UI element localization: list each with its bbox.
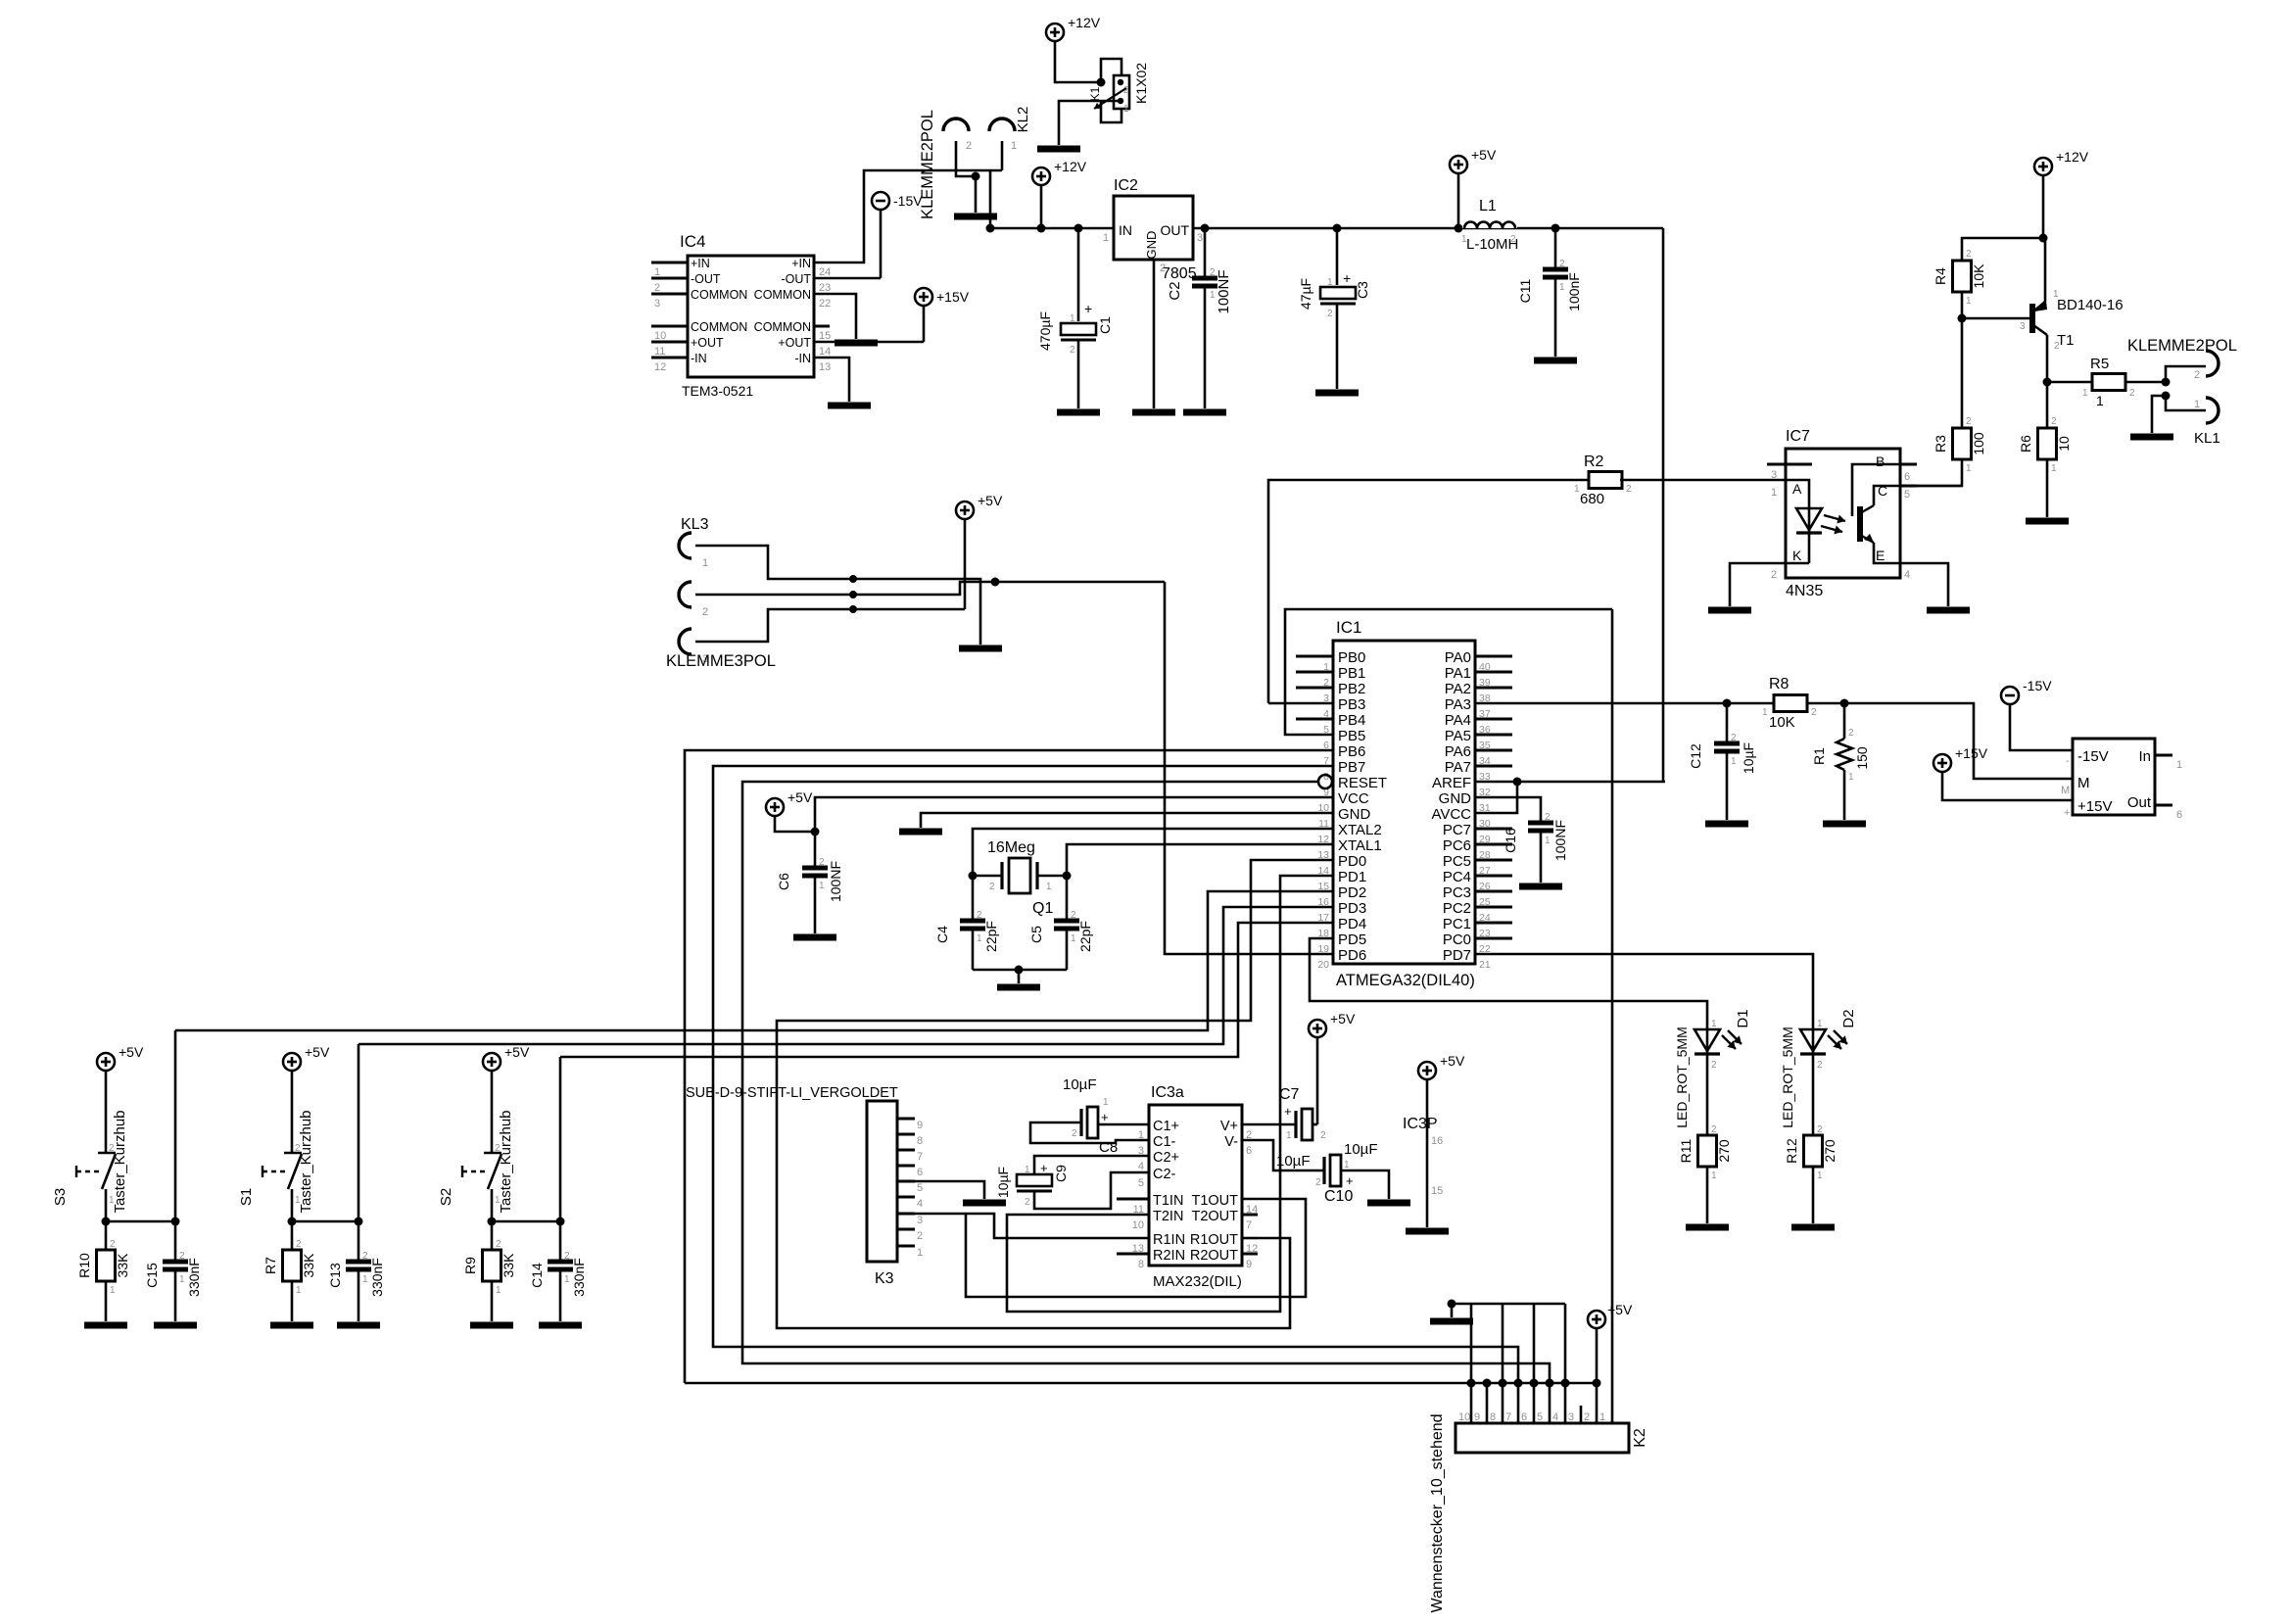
svg-text:+: + (2064, 807, 2070, 819)
svg-text:1: 1 (1545, 836, 1551, 846)
svg-text:3: 3 (1568, 1411, 1574, 1423)
svg-text:2: 2 (2054, 341, 2060, 352)
svg-text:1: 1 (2176, 759, 2182, 771)
svg-text:IC3a: IC3a (1151, 1084, 1184, 1101)
svg-text:47µF: 47µF (1298, 278, 1313, 310)
svg-text:2: 2 (1811, 707, 1817, 718)
svg-text:5: 5 (917, 1182, 923, 1194)
svg-text:R7: R7 (263, 1257, 278, 1274)
svg-text:1: 1 (2096, 393, 2104, 408)
svg-text:PC2: PC2 (1443, 900, 1471, 917)
svg-text:150: 150 (1854, 746, 1870, 770)
svg-text:-15V: -15V (2023, 678, 2052, 693)
svg-text:6: 6 (2176, 809, 2182, 821)
svg-text:C2: C2 (1167, 281, 1183, 300)
svg-text:12: 12 (654, 361, 666, 373)
svg-text:1: 1 (1046, 882, 1052, 892)
svg-text:KL3: KL3 (681, 516, 709, 533)
svg-text:R2IN: R2IN (1153, 1248, 1185, 1264)
svg-text:C11: C11 (1517, 278, 1533, 303)
svg-text:E: E (1876, 548, 1885, 563)
svg-text:13: 13 (819, 361, 831, 373)
svg-text:R12: R12 (1784, 1138, 1799, 1164)
svg-text:1: 1 (654, 266, 660, 278)
svg-text:6: 6 (1246, 1145, 1252, 1157)
svg-text:PA7: PA7 (1445, 759, 1471, 776)
svg-text:C6: C6 (776, 873, 791, 890)
svg-text:2: 2 (495, 1143, 501, 1154)
svg-text:K1: K1 (1088, 86, 1102, 101)
svg-text:1: 1 (1966, 296, 1972, 307)
svg-text:1: 1 (1103, 1097, 1109, 1108)
svg-text:16Meg: 16Meg (987, 839, 1035, 856)
svg-text:+5V: +5V (1607, 1302, 1633, 1317)
svg-text:K2: K2 (1632, 1428, 1648, 1448)
svg-text:RESET: RESET (1338, 775, 1387, 791)
svg-text:T1: T1 (2057, 332, 2075, 349)
svg-text:S3: S3 (52, 1188, 69, 1206)
svg-text:100nF: 100nF (1566, 272, 1582, 311)
svg-text:1: 1 (1103, 232, 1109, 244)
svg-text:C1+: C1+ (1153, 1119, 1179, 1134)
svg-text:1: 1 (1070, 313, 1075, 324)
svg-text:10: 10 (2056, 436, 2072, 452)
svg-text:2: 2 (1817, 1124, 1823, 1135)
svg-text:1: 1 (1011, 140, 1017, 152)
svg-text:2: 2 (1559, 259, 1565, 269)
svg-text:2: 2 (966, 140, 972, 152)
svg-text:PA0: PA0 (1445, 649, 1471, 666)
svg-text:2: 2 (1584, 1411, 1590, 1423)
svg-text:1: 1 (1025, 1165, 1030, 1175)
svg-text:3: 3 (1197, 232, 1203, 244)
svg-text:+12V: +12V (1054, 159, 1087, 174)
svg-text:1: 1 (2194, 399, 2200, 410)
svg-text:R1: R1 (1811, 747, 1827, 765)
svg-text:IC3P: IC3P (1403, 1116, 1438, 1132)
svg-text:1: 1 (296, 1285, 302, 1296)
svg-text:LED_ROT_5MM: LED_ROT_5MM (1780, 1027, 1795, 1127)
svg-text:R9: R9 (462, 1257, 478, 1274)
svg-text:6: 6 (917, 1167, 923, 1178)
svg-text:C5: C5 (1028, 926, 1044, 943)
svg-text:16: 16 (1431, 1135, 1443, 1147)
svg-text:2: 2 (1327, 309, 1333, 319)
svg-text:6: 6 (1521, 1411, 1527, 1423)
svg-text:1: 1 (1559, 282, 1565, 293)
svg-text:PD1: PD1 (1338, 869, 1366, 885)
svg-text:100NF: 100NF (1552, 820, 1568, 861)
svg-text:4: 4 (1904, 569, 1910, 581)
svg-text:1: 1 (564, 1274, 570, 1285)
svg-text:1: 1 (1711, 1170, 1717, 1181)
svg-text:+5V: +5V (119, 1044, 144, 1060)
svg-text:1: 1 (362, 1274, 368, 1285)
svg-text:+: + (1346, 1173, 1354, 1188)
svg-text:+: + (1101, 1110, 1109, 1124)
svg-text:PD4: PD4 (1338, 916, 1366, 932)
svg-text:4: 4 (917, 1198, 923, 1210)
svg-text:D2: D2 (1840, 1009, 1857, 1027)
svg-text:2: 2 (1731, 733, 1737, 743)
svg-text:+5V: +5V (1471, 147, 1497, 163)
svg-text:4: 4 (1552, 1411, 1558, 1423)
svg-text:B: B (1876, 454, 1885, 469)
svg-text:COMMON: COMMON (754, 320, 811, 334)
svg-text:PA4: PA4 (1445, 712, 1471, 729)
svg-text:24: 24 (819, 266, 831, 278)
svg-text:1: 1 (2082, 388, 2088, 399)
svg-text:1: 1 (2053, 289, 2059, 300)
svg-text:1: 1 (702, 557, 708, 569)
svg-text:1: 1 (1574, 484, 1580, 495)
svg-text:AVCC: AVCC (1431, 806, 1471, 823)
svg-text:C10: C10 (1324, 1188, 1353, 1205)
svg-text:1: 1 (917, 1247, 923, 1259)
svg-text:R11: R11 (1678, 1138, 1694, 1163)
svg-text:270: 270 (1822, 1139, 1838, 1163)
svg-text:+: + (1284, 1104, 1292, 1119)
svg-text:PC3: PC3 (1443, 884, 1471, 901)
svg-text:5: 5 (1537, 1411, 1543, 1423)
svg-text:R5: R5 (2090, 356, 2109, 372)
svg-text:10K: 10K (1971, 263, 1986, 289)
svg-text:PB4: PB4 (1338, 712, 1365, 729)
svg-text:PC4: PC4 (1443, 869, 1471, 885)
svg-text:20: 20 (1317, 959, 1329, 971)
svg-text:COMMON: COMMON (691, 288, 747, 302)
svg-text:2: 2 (819, 857, 825, 868)
svg-text:-IN: -IN (794, 352, 811, 365)
svg-text:100NF: 100NF (828, 861, 843, 902)
svg-text:C13: C13 (327, 1263, 343, 1288)
svg-text:S1: S1 (238, 1188, 255, 1206)
svg-text:-IN: -IN (691, 352, 707, 365)
svg-text:SUB-D-9-STIFT-LI_VERGOLDET: SUB-D-9-STIFT-LI_VERGOLDET (686, 1085, 898, 1101)
svg-text:2: 2 (1025, 1197, 1030, 1208)
svg-text:5: 5 (1904, 489, 1910, 501)
svg-text:2: 2 (1210, 267, 1216, 278)
svg-text:1: 1 (109, 1195, 115, 1206)
svg-text:C1-: C1- (1153, 1134, 1176, 1150)
svg-text:S2: S2 (438, 1188, 454, 1206)
svg-text:33K: 33K (115, 1253, 130, 1278)
svg-text:23: 23 (819, 282, 831, 294)
svg-text:+15V: +15V (936, 289, 970, 305)
svg-text:T1OUT: T1OUT (1191, 1193, 1238, 1209)
svg-text:-OUT: -OUT (691, 272, 721, 286)
svg-text:+IN: +IN (691, 257, 710, 270)
svg-text:+5V: +5V (305, 1044, 330, 1060)
svg-text:470µF: 470µF (1037, 311, 1053, 351)
svg-text:2: 2 (1072, 1128, 1077, 1139)
svg-text:K3: K3 (875, 1270, 894, 1287)
svg-text:8: 8 (1490, 1411, 1496, 1423)
svg-text:+OUT: +OUT (691, 336, 724, 350)
svg-text:PC6: PC6 (1443, 837, 1471, 854)
svg-text:330nF: 330nF (571, 1258, 587, 1297)
svg-text:9: 9 (917, 1120, 923, 1131)
svg-text:PC0: PC0 (1443, 931, 1471, 948)
svg-text:2: 2 (1510, 234, 1516, 245)
svg-text:10µF: 10µF (1344, 1141, 1378, 1158)
svg-text:PB1: PB1 (1338, 665, 1365, 682)
svg-text:7805: 7805 (1162, 265, 1197, 282)
svg-text:4N35: 4N35 (1786, 583, 1823, 599)
svg-text:AREF: AREF (1432, 775, 1471, 791)
svg-text:11: 11 (1133, 1204, 1144, 1216)
svg-text:+12V: +12V (2056, 149, 2089, 165)
svg-text:2: 2 (1711, 1060, 1717, 1071)
svg-text:2: 2 (1771, 569, 1777, 581)
svg-text:1: 1 (819, 881, 825, 891)
svg-text:2: 2 (110, 1239, 116, 1250)
svg-text:C15: C15 (144, 1263, 160, 1288)
svg-text:+15V: +15V (2077, 798, 2112, 815)
svg-text:LED_ROT_5MM: LED_ROT_5MM (1674, 1027, 1690, 1127)
svg-text:2: 2 (496, 1239, 501, 1250)
svg-text:C9: C9 (1053, 1165, 1069, 1182)
svg-text:2: 2 (989, 882, 995, 892)
svg-text:4: 4 (1138, 1161, 1144, 1172)
svg-text:PD2: PD2 (1338, 884, 1366, 901)
svg-text:KLEMME3POL: KLEMME3POL (666, 652, 776, 670)
svg-text:GND: GND (1439, 790, 1472, 807)
svg-text:2: 2 (1545, 812, 1551, 823)
svg-text:1: 1 (1286, 1130, 1292, 1141)
svg-text:IC2: IC2 (1114, 177, 1138, 194)
svg-text:+5V: +5V (978, 493, 1003, 508)
svg-text:PA3: PA3 (1445, 696, 1471, 713)
svg-text:2: 2 (179, 1251, 185, 1262)
svg-text:1: 1 (1771, 487, 1777, 499)
svg-text:2: 2 (564, 1251, 570, 1262)
svg-text:PB2: PB2 (1338, 681, 1365, 697)
svg-text:PB5: PB5 (1338, 728, 1365, 744)
svg-text:PB6: PB6 (1338, 743, 1365, 760)
svg-text:C3: C3 (1355, 281, 1370, 299)
svg-text:22pF: 22pF (1077, 921, 1093, 952)
svg-text:2: 2 (1315, 1177, 1321, 1188)
svg-text:R2OUT: R2OUT (1190, 1248, 1238, 1264)
svg-text:XTAL1: XTAL1 (1338, 837, 1382, 854)
svg-text:2: 2 (1160, 263, 1166, 274)
svg-text:1: 1 (1327, 277, 1333, 288)
svg-text:+5V: +5V (504, 1044, 530, 1060)
svg-text:GND: GND (1338, 806, 1371, 823)
svg-text:2: 2 (2129, 388, 2135, 399)
svg-text:1: 1 (179, 1274, 185, 1285)
svg-text:1: 1 (2051, 463, 2057, 474)
svg-text:KL1: KL1 (2194, 430, 2220, 447)
svg-text:IC7: IC7 (1786, 428, 1810, 445)
svg-text:2: 2 (2051, 416, 2057, 427)
svg-text:+OUT: +OUT (778, 336, 811, 350)
svg-text:-OUT: -OUT (781, 272, 811, 286)
svg-text:PD0: PD0 (1338, 853, 1366, 870)
svg-text:3: 3 (1771, 469, 1777, 481)
svg-text:9: 9 (1246, 1259, 1252, 1270)
svg-text:2: 2 (1966, 416, 1972, 427)
svg-text:COMMON: COMMON (754, 288, 811, 302)
svg-text:10: 10 (1458, 1411, 1470, 1423)
svg-text:10K: 10K (1769, 714, 1795, 731)
svg-text:2: 2 (654, 282, 660, 294)
svg-text:10µF: 10µF (995, 1167, 1011, 1198)
svg-text:+5V: +5V (788, 789, 813, 805)
svg-text:2: 2 (295, 1143, 301, 1154)
svg-text:A: A (1792, 481, 1802, 497)
svg-text:2: 2 (2194, 369, 2200, 381)
svg-text:R4: R4 (1933, 267, 1948, 285)
svg-text:R10: R10 (76, 1253, 92, 1278)
svg-text:1: 1 (1123, 104, 1129, 115)
svg-text:2: 2 (362, 1251, 368, 1262)
svg-text:270: 270 (1716, 1139, 1732, 1163)
svg-text:T2IN: T2IN (1153, 1209, 1183, 1224)
svg-text:2: 2 (1626, 484, 1632, 495)
svg-text:3: 3 (917, 1215, 923, 1226)
svg-text:C12: C12 (1688, 743, 1703, 769)
svg-text:M: M (2077, 775, 2090, 791)
svg-text:15: 15 (1431, 1185, 1443, 1197)
svg-text:GND: GND (1144, 231, 1159, 260)
svg-text:K1X02: K1X02 (1133, 63, 1149, 104)
svg-text:3: 3 (654, 298, 660, 310)
svg-text:+IN: +IN (791, 257, 811, 270)
svg-text:1: 1 (1461, 234, 1467, 245)
svg-text:In: In (2138, 748, 2151, 765)
svg-text:PD3: PD3 (1338, 900, 1366, 917)
svg-text:PA5: PA5 (1445, 728, 1471, 744)
svg-text:KLEMME2POL: KLEMME2POL (2127, 337, 2237, 355)
svg-text:MAX232(DIL): MAX232(DIL) (1153, 1273, 1242, 1290)
svg-text:V+: V+ (1220, 1119, 1238, 1134)
svg-text:+15V: +15V (1955, 745, 1988, 761)
svg-text:XTAL2: XTAL2 (1338, 822, 1382, 838)
svg-text:KLEMME2POL: KLEMME2POL (919, 110, 936, 219)
svg-text:C14: C14 (529, 1263, 545, 1288)
svg-text:+: + (1084, 301, 1092, 316)
svg-text:OUT: OUT (1160, 222, 1189, 238)
svg-text:COMMON: COMMON (691, 320, 747, 334)
svg-text:C2-: C2- (1153, 1167, 1176, 1182)
svg-text:T2OUT: T2OUT (1191, 1209, 1238, 1224)
svg-text:22: 22 (819, 298, 831, 310)
svg-text:10: 10 (1132, 1219, 1144, 1231)
svg-text:-15V: -15V (2077, 748, 2109, 765)
svg-text:PA2: PA2 (1445, 681, 1471, 697)
svg-text:7: 7 (917, 1151, 923, 1163)
svg-text:2: 2 (1320, 1130, 1326, 1141)
svg-text:1: 1 (295, 1195, 301, 1206)
svg-text:PB3: PB3 (1338, 696, 1365, 713)
svg-text:8: 8 (1138, 1259, 1144, 1270)
svg-text:IC4: IC4 (680, 232, 705, 251)
svg-text:2: 2 (917, 1230, 923, 1242)
svg-text:C4: C4 (934, 926, 950, 943)
svg-text:10: 10 (654, 330, 666, 342)
svg-text:680: 680 (1580, 491, 1604, 507)
svg-text:2: 2 (1071, 910, 1076, 921)
svg-text:1: 1 (1210, 290, 1216, 301)
svg-text:L1: L1 (1479, 198, 1497, 215)
svg-text:Wannenstecker_10_stehend: Wannenstecker_10_stehend (1429, 1413, 1446, 1612)
svg-text:1: 1 (495, 1195, 501, 1206)
svg-text:14: 14 (819, 346, 831, 358)
svg-text:2: 2 (296, 1239, 302, 1250)
svg-text:1: 1 (1711, 1019, 1717, 1029)
svg-text:PB7: PB7 (1338, 759, 1365, 776)
svg-text:33K: 33K (301, 1253, 316, 1278)
svg-text:IC1: IC1 (1336, 618, 1361, 637)
svg-text:Q1: Q1 (1032, 900, 1053, 917)
svg-text:R2: R2 (1584, 454, 1604, 470)
svg-text:10µF: 10µF (1741, 742, 1756, 774)
svg-text:C7: C7 (1279, 1086, 1300, 1103)
svg-text:330nF: 330nF (369, 1258, 385, 1297)
svg-text:V-: V- (1224, 1134, 1238, 1150)
svg-text:PD7: PD7 (1443, 947, 1471, 964)
svg-text:IN: IN (1119, 222, 1132, 238)
svg-text:2: 2 (1123, 85, 1129, 96)
svg-text:C2+: C2+ (1153, 1150, 1179, 1166)
svg-text:10µF: 10µF (1063, 1076, 1097, 1093)
svg-text:+5V: +5V (1440, 1053, 1465, 1069)
svg-text:2: 2 (1817, 1060, 1823, 1071)
svg-text:M: M (2061, 785, 2070, 796)
svg-text:330nF: 330nF (186, 1258, 202, 1297)
svg-text:KL2: KL2 (1015, 107, 1031, 133)
svg-text:ATMEGA32(DIL40): ATMEGA32(DIL40) (1336, 972, 1475, 989)
svg-text:Out: Out (2127, 794, 2152, 811)
svg-text:BD140-16: BD140-16 (2057, 297, 2124, 313)
svg-text:-: - (2066, 755, 2070, 767)
svg-text:TEM3-0521: TEM3-0521 (682, 383, 753, 399)
svg-text:8: 8 (917, 1135, 923, 1147)
svg-text:5: 5 (1138, 1177, 1144, 1189)
svg-text:PB0: PB0 (1338, 649, 1365, 666)
svg-text:2: 2 (1711, 1124, 1717, 1135)
svg-text:PD6: PD6 (1338, 947, 1366, 964)
svg-text:PD5: PD5 (1338, 931, 1366, 948)
svg-text:2: 2 (977, 910, 982, 921)
svg-text:1: 1 (496, 1285, 501, 1296)
svg-text:+5V: +5V (1330, 1011, 1356, 1027)
svg-text:VCC: VCC (1338, 790, 1369, 807)
svg-text:PA1: PA1 (1445, 665, 1471, 682)
svg-text:1: 1 (977, 933, 982, 944)
svg-text:R6: R6 (2018, 435, 2033, 453)
svg-text:R1IN: R1IN (1153, 1232, 1185, 1248)
svg-text:1: 1 (1731, 756, 1737, 767)
svg-text:21: 21 (1479, 959, 1491, 971)
svg-text:6: 6 (1904, 471, 1910, 483)
svg-text:1: 1 (1817, 1170, 1823, 1181)
svg-text:100NF: 100NF (1216, 269, 1232, 313)
svg-text:PC5: PC5 (1443, 853, 1471, 870)
svg-text:PC7: PC7 (1443, 822, 1471, 838)
svg-text:2: 2 (1966, 249, 1972, 260)
svg-text:PC1: PC1 (1443, 916, 1471, 932)
svg-text:1: 1 (1599, 1411, 1605, 1423)
svg-text:K: K (1792, 548, 1802, 563)
svg-text:T1IN: T1IN (1153, 1193, 1183, 1209)
svg-text:3: 3 (2020, 321, 2026, 332)
svg-text:+12V: +12V (1068, 15, 1101, 30)
svg-text:2: 2 (1848, 728, 1854, 739)
svg-text:10µF: 10µF (1276, 1153, 1311, 1170)
